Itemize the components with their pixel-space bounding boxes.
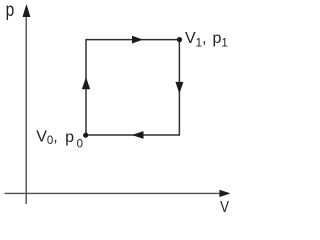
node V0,p0 dot [83,133,88,138]
svg-text:V0, p0: V0, p0 [36,128,83,150]
svg-text:V1, p1: V1, p1 [185,30,228,50]
p-axis arrowhead [23,4,31,17]
svg-text:V: V [220,199,229,216]
left edge arrowhead (upward) [82,77,90,89]
right edge arrowhead (downward) [175,82,183,94]
top edge arrowhead (rightward) [132,36,143,44]
node V1,p1 dot [177,37,182,42]
cycle rectangle wires (two isobars, two isochores) [86,40,179,135]
svg-text:p: p [6,0,15,21]
bottom edge arrowhead (leftward) [132,131,144,139]
p-axis line [25,12,27,204]
V-axis line [5,192,222,194]
V-axis arrowhead [219,190,230,197]
